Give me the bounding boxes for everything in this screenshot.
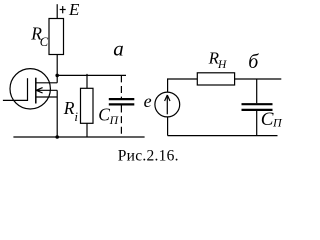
svg-text:C: C [261,109,274,130]
node: drain junction dot [55,74,59,78]
wire: drain riser [56,75,58,82]
label Ri [63,98,79,124]
power label +E [60,0,80,19]
resistor RH [197,73,234,85]
transistor gate electrode [27,78,29,101]
node: source-rail junction dot [55,135,59,139]
wire: b source bottom lead [167,117,169,136]
svg-text:а: а [113,37,124,61]
svg-text:i: i [74,109,78,124]
capacitor CP (a) dashed top lead [120,75,122,98]
transistor drain stub [36,82,57,84]
svg-text:Н: Н [217,59,227,71]
transistor VT1 body circle [10,69,50,109]
current source e body circle [155,92,180,117]
wire: b bottom wire [168,135,278,137]
label RC [30,24,49,49]
svg-text:П: П [272,116,283,130]
resistor Ri [81,88,94,123]
wire: b top wire resistor to right terminal [235,78,282,80]
wire: RC bottom to drain node [56,55,58,76]
svg-text:Рис.2.16.: Рис.2.16. [118,147,179,164]
label RH [208,49,227,72]
wire: b top-left corner to resistor [168,79,198,92]
transistor gate lead wire [3,99,28,101]
capacitor CP (b) top plate [242,103,273,105]
wire: substrate-source tie and source down lead [56,90,58,137]
svg-text:R: R [63,98,75,118]
wire: CP (b) top lead [256,79,258,103]
svg-text:C: C [98,104,110,124]
capacitor CP (a) bottom plate [109,103,135,105]
label CP (a) [98,104,119,126]
transistor channel electrode [35,78,37,104]
svg-text:е: е [144,91,152,111]
wire: Ri top lead [86,74,88,88]
capacitor CP (a) top plate [109,98,135,100]
svg-text:E: E [68,0,80,19]
wire: +E supply lead [56,4,58,18]
capacitor CP (a) dashed bottom lead [120,106,122,138]
transistor source stub [36,96,57,98]
wire: Ri bottom lead [86,123,88,137]
capacitor CP (b) bottom plate [242,109,273,111]
label CP (b) [261,109,283,130]
bottom rail (circuit a) [13,136,144,138]
wire: CP (b) bottom lead [256,111,258,136]
transistor substrate arrow [36,88,43,93]
transistor substrate stub [36,89,57,91]
current source arrow [165,95,170,114]
wire: drain rail to Ri and CP branches [57,74,126,76]
svg-text:C: C [40,35,49,49]
resistor RC [49,19,64,55]
svg-text:П: П [109,113,120,127]
svg-text:б: б [248,51,259,73]
